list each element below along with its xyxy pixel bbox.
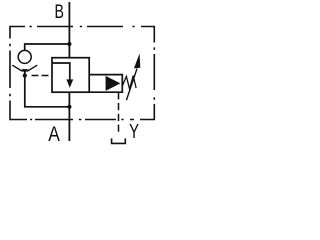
node: junction dot on A line	[67, 105, 71, 109]
check valve ball (circle)	[18, 50, 31, 63]
main stage valve body (square)	[52, 58, 89, 92]
pilot line (dashed) from check valve node to main stage left side	[32, 75, 53, 77]
pilot relief poppet (filled triangle)	[106, 76, 121, 91]
tank symbol at Y	[112, 138, 126, 143]
main stage flow arrowhead (down)	[66, 79, 73, 88]
enclosure border left (dash-dot)	[9, 26, 11, 121]
svg-text:Y: Y	[129, 119, 139, 142]
pilot relief valve body (open rectangle)	[89, 75, 122, 93]
check valve seat filled vertex triangle	[22, 69, 28, 74]
wire: main B-A vertical line upper part (port B to main stage)	[68, 2, 70, 58]
wire: check valve bottom down and right to A line	[25, 72, 70, 107]
svg-text:A: A	[48, 124, 60, 147]
check valve seat right line	[27, 65, 37, 71]
pilot relief spring (zigzag)	[122, 76, 136, 90]
enclosure border right (dash-dot)	[153, 26, 155, 120]
wire: horizontal branch from B line to check valve top	[25, 44, 70, 51]
proportional adjustment arrowhead (filled)	[134, 53, 140, 68]
proportional adjustment arrow shaft (diagonal)	[126, 69, 137, 101]
node: junction dot on B line	[67, 42, 71, 46]
node: junction dot below check valve	[23, 73, 27, 77]
svg-text:B: B	[54, 1, 63, 23]
enclosure border bottom (dash-dot)	[10, 119, 155, 121]
drain line Y (dashed vertical)	[118, 92, 120, 133]
main stage internal flow path (elbow)	[53, 63, 70, 80]
wire: main B-A vertical line lower part (main stage to port A)	[68, 92, 70, 141]
enclosure border top (dash-dot)	[10, 26, 154, 28]
check valve seat left line	[12, 65, 22, 71]
